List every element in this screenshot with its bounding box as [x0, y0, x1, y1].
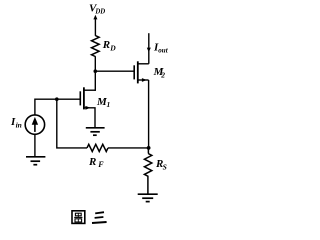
label M2 — [153, 66, 166, 80]
node C junction dot — [147, 146, 151, 150]
transistor M2 — [134, 61, 149, 83]
svg-text:DD: DD — [94, 9, 105, 16]
wire node B down to RF — [57, 99, 87, 148]
label Iout — [153, 42, 169, 55]
Iout arrow — [147, 48, 151, 53]
svg-text:out: out — [158, 46, 168, 54]
ground M1 — [86, 128, 105, 135]
wire M1 gate to Iin — [35, 99, 80, 115]
transistor M1 — [80, 87, 95, 127]
node B junction dot — [55, 97, 59, 101]
resistor RD — [92, 36, 100, 57]
wire node A to M2 gate — [95, 70, 134, 72]
svg-text:D: D — [109, 44, 116, 53]
power VDD label — [89, 3, 105, 16]
ground Iin — [26, 157, 45, 165]
node A junction dot — [94, 69, 98, 73]
VDD arrow — [93, 15, 97, 36]
ground RS — [138, 194, 158, 201]
svg-text:R: R — [88, 156, 96, 168]
svg-text:in: in — [16, 121, 22, 130]
svg-text:S: S — [163, 163, 167, 172]
label RD — [102, 39, 116, 53]
wire RD to M1 drain — [94, 56, 96, 91]
svg-text:2: 2 — [160, 71, 165, 80]
caption 三 (three) — [92, 212, 107, 223]
current source Iin — [25, 115, 44, 134]
svg-text:1: 1 — [107, 100, 111, 109]
wire Iin to ground — [34, 134, 36, 156]
label RS — [155, 158, 167, 172]
label RF — [88, 156, 104, 169]
resistor RS — [144, 148, 151, 194]
wire RF to node C — [108, 147, 149, 149]
label M1 — [96, 96, 110, 109]
resistor RF — [87, 144, 108, 151]
caption 圖 (Figure) — [72, 211, 85, 224]
svg-text:F: F — [97, 160, 104, 169]
wire M2 source to node C — [148, 80, 150, 148]
svg-text:R: R — [102, 39, 110, 51]
label Iin — [10, 116, 22, 130]
wire M2 drain to Iout — [148, 33, 150, 64]
